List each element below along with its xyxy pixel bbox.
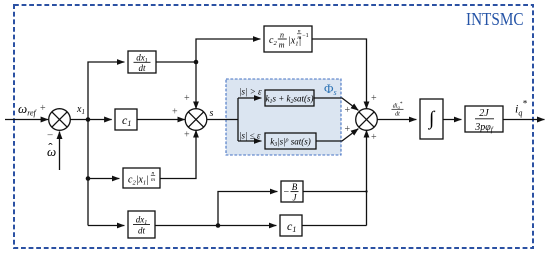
svg-text:+: + [371, 132, 377, 143]
svg-text:+: + [184, 130, 190, 141]
wire: bottom dx1/dt output to bottom c1 block [155, 225, 276, 227]
block c2|x1|^(n/m) [123, 168, 160, 188]
block -B/J [281, 181, 303, 203]
wire: upper branch into k1s+k2sat block [238, 97, 261, 99]
wire: top dx1/dt output to junction [156, 61, 196, 63]
shaded region box (switching law) [226, 79, 341, 155]
wire: omega_ref input [5, 119, 48, 121]
plus sign (c2|x1| into SJ2 bottom) [184, 130, 190, 141]
svg-text:c2|x1|: c2|x1| [128, 175, 149, 187]
label iq* [515, 99, 527, 118]
wire: left rail corner into bottom dx1/dt block [88, 225, 124, 227]
junction dot at (196,62) [194, 60, 199, 65]
svg-text:k3|s|ρ sat(s): k3|s|ρ sat(s) [270, 137, 311, 149]
svg-text:m: m [151, 177, 155, 183]
plus sign (omega_ref into SJ1) [40, 103, 46, 114]
svg-text:k1s + k2sat(s): k1s + k2sat(s) [265, 94, 313, 106]
wire: junction down into SJ2 top [195, 62, 197, 109]
plus sign (into SJ3 top) [371, 93, 377, 104]
block c1 (bottom) [280, 215, 302, 236]
summing junction SJ1 [49, 109, 71, 131]
wire: SJ2 output s into switching region [207, 119, 238, 121]
junction dot at (218,225.5) [216, 223, 221, 228]
svg-text:m: m [279, 41, 285, 50]
plus sign (c1 into SJ2) [172, 107, 178, 118]
minus sign (feedback into SJ1) [47, 130, 53, 142]
label di_q*/dt [392, 102, 404, 118]
block c1 (upper) [115, 109, 137, 130]
label x1 [76, 104, 85, 116]
wire: branch into c2|x1|^(n/m) block [88, 178, 119, 180]
plus sign (dx1/dt into SJ2 top) [184, 93, 190, 104]
label INTSMC [466, 9, 524, 29]
block dx1/dt (bottom) [128, 211, 155, 238]
wire: c1 to SJ2 [137, 119, 185, 121]
svg-text:m: m [297, 35, 301, 41]
node x1 junction dot [86, 117, 91, 122]
svg-text:B: B [292, 182, 298, 192]
block dx1/dt (top) [128, 51, 156, 73]
svg-text:+: + [371, 93, 377, 104]
wire: bottom rail up into SJ3 [366, 130, 368, 225]
block c2(n/m)|x1|^(n/m-1) [264, 26, 312, 52]
block k3 |s|^rho sat(s) [265, 133, 316, 149]
svg-text:|s| > ε: |s| > ε [239, 87, 262, 97]
block 2J/(3p phi_f) [465, 106, 503, 134]
svg-text:+: + [172, 107, 178, 118]
svg-text:dt: dt [138, 226, 146, 236]
junction dot on left rail (branch to c2|x1| block) [86, 176, 91, 181]
condition label |s| > epsilon [239, 87, 262, 97]
wire: omega_hat feedback up into SJ1 [59, 132, 61, 171]
wire: integrator to gain block [443, 119, 461, 121]
wire: lower branch into k3 sat block [238, 140, 261, 142]
plus sign (k1 path into SJ3) [345, 105, 351, 116]
wire: c2(n/m) block output right and down into SJ3 top [312, 39, 367, 109]
junction at (366.5,191.5) [365, 190, 367, 192]
svg-text:ˆ: ˆ [48, 140, 53, 155]
block integrator [420, 99, 443, 139]
summing junction SJ3 [356, 109, 378, 131]
svg-text:n: n [280, 31, 284, 40]
wire: iq* output [503, 119, 545, 121]
condition label |s| <= epsilon [239, 131, 261, 141]
svg-text:INTSMC: INTSMC [466, 9, 524, 29]
svg-text:+: + [345, 124, 351, 135]
plus sign (bottom rail into SJ3) [371, 132, 377, 143]
wire: SJ1 to block c1 with node x1 [70, 119, 111, 121]
wire: split rail inside shaded region [237, 98, 239, 141]
wire: -B/J output to bottom rail [303, 191, 367, 193]
svg-text:−1: −1 [302, 33, 308, 39]
label omega_hat [47, 140, 56, 159]
svg-text:dt: dt [395, 112, 400, 118]
wire: x1 node down the left rail [87, 120, 89, 226]
wire: k3 block output diagonal into SJ3 [316, 129, 358, 141]
summing junction SJ2 [185, 109, 207, 131]
plus sign (k3 path into SJ3) [345, 124, 351, 135]
label Phi_s [324, 81, 337, 97]
wire: c2|x1| output up into SJ2 bottom [160, 130, 196, 178]
svg-text:dt: dt [138, 63, 146, 73]
svg-text:+: + [40, 103, 46, 114]
svg-text:|s| ≤ ε: |s| ≤ ε [239, 131, 261, 141]
svg-text:−: − [284, 187, 290, 198]
wire: SJ3 output to integrator [377, 119, 416, 121]
wire: k1 block output diagonal into SJ3 [314, 98, 358, 110]
wire: bottom c1 output to rail corner [302, 225, 367, 227]
label s [210, 108, 214, 119]
wire: branch up into -B/J block [218, 192, 277, 226]
wire: x1 node up to top dx1/dt block [88, 62, 124, 120]
block k1s + k2 sat(s) [265, 90, 314, 106]
label omega_ref [18, 101, 38, 118]
svg-text:2J: 2J [479, 108, 489, 119]
svg-text:+: + [345, 105, 351, 116]
svg-text:+: + [184, 93, 190, 104]
svg-text:s: s [210, 108, 214, 119]
wire: junction up and right into c2(n/m) block [196, 39, 260, 62]
